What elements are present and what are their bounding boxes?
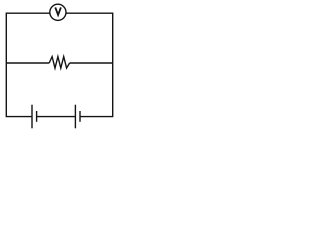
battery cell B2 long plate (positive) (74, 105, 76, 129)
battery cell B2 short plate (negative) (79, 111, 81, 122)
resistor R1 (49, 57, 69, 69)
wire top-right + right side + bottom-right wire (66, 13, 113, 116)
wire top-left + left side + bottom-left wire (6, 13, 50, 116)
voltmeter V1 circle body (50, 4, 66, 20)
wire middle-left (6, 62, 49, 64)
battery cell B1 long plate (positive) (31, 105, 33, 129)
wire middle-right (70, 62, 113, 64)
battery cell B1 short plate (negative) (36, 111, 38, 122)
voltmeter V1 label "V" (55, 7, 61, 14)
wire between battery cells (37, 116, 76, 118)
